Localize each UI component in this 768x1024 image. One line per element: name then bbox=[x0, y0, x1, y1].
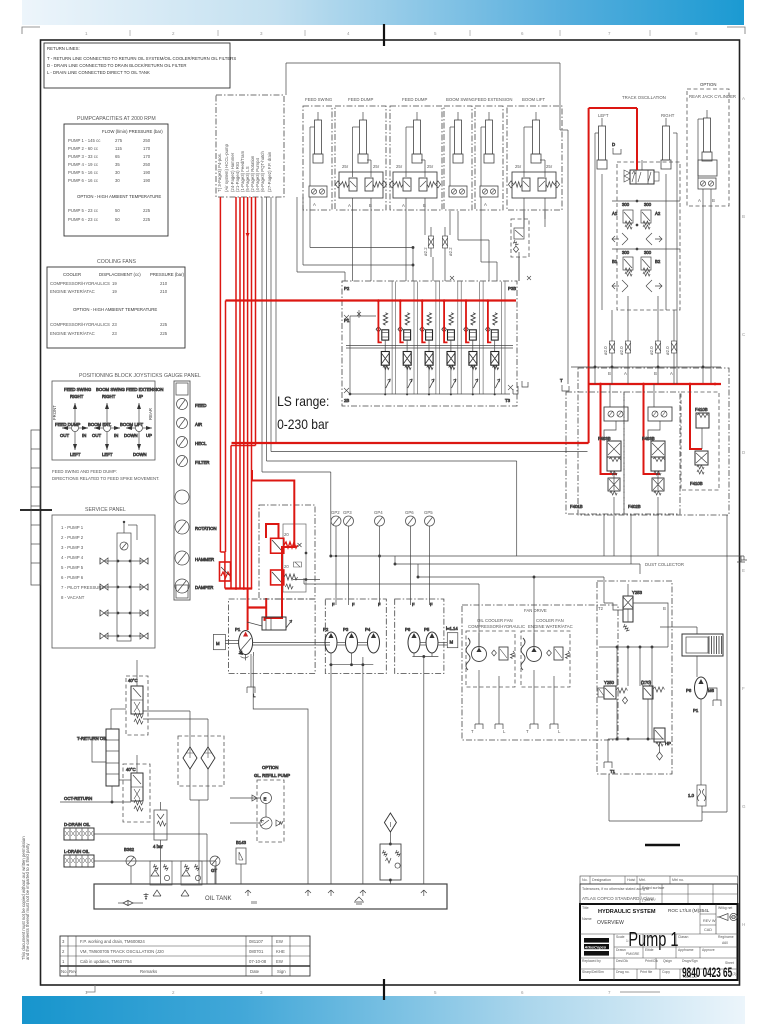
svg-text:T2: T2 bbox=[598, 606, 604, 611]
svg-text:FEED SWING AND FEED DUMP:: FEED SWING AND FEED DUMP: bbox=[52, 469, 117, 474]
svg-text:07-10-08: 07-10-08 bbox=[249, 959, 267, 964]
title block upper table bbox=[580, 876, 738, 884]
svg-text:Drawn: Drawn bbox=[616, 948, 626, 952]
gray bundle from pilot box bbox=[262, 197, 588, 556]
svg-text:RIGHT: RIGHT bbox=[102, 394, 116, 399]
svg-text:A2: A2 bbox=[655, 211, 661, 216]
valve assembly F402B bbox=[624, 384, 680, 514]
svg-text:HYDRAULIC SYSTEM: HYDRAULIC SYSTEM bbox=[598, 909, 656, 915]
gauge FEED bbox=[177, 399, 207, 410]
svg-text:F401B: F401B bbox=[570, 504, 583, 509]
svg-text:F: F bbox=[430, 602, 433, 607]
P1 suction line bbox=[246, 652, 308, 884]
svg-text:300: 300 bbox=[622, 202, 630, 207]
centre fold tick bottom bbox=[383, 979, 385, 1000]
svg-text:B2: B2 bbox=[655, 259, 661, 264]
svg-text:7 - PILOT PRESSURE: 7 - PILOT PRESSURE bbox=[61, 585, 105, 590]
red LS rail to manifold bbox=[226, 301, 517, 553]
svg-text:CAD: CAD bbox=[704, 928, 712, 932]
svg-text:COMPRESSOR/HYDRAULICS: COMPRESSOR/HYDRAULICS bbox=[50, 322, 110, 327]
switch B143 bbox=[236, 840, 247, 884]
orifice 2.2 pair bbox=[423, 227, 453, 257]
svg-text:M: M bbox=[216, 641, 220, 646]
svg-text:G: G bbox=[742, 804, 746, 809]
svg-text:6 - PUMP 6: 6 - PUMP 6 bbox=[61, 575, 84, 580]
svg-text:ROTATION: ROTATION bbox=[195, 526, 217, 531]
red HCCL feed bbox=[225, 470, 294, 630]
svg-text:BOOM SWING: BOOM SWING bbox=[96, 387, 126, 392]
valve group FEED DUMP 1 bbox=[335, 97, 387, 227]
svg-text:Copy: Copy bbox=[662, 970, 670, 974]
svg-text:AtlasCopco: AtlasCopco bbox=[584, 945, 607, 950]
svg-text:65: 65 bbox=[115, 154, 120, 159]
manifold galleries bbox=[344, 286, 516, 403]
svg-text:19: 19 bbox=[112, 281, 117, 286]
cooler fan engine water/atac bbox=[521, 618, 573, 734]
svg-text:A60: A60 bbox=[722, 941, 728, 945]
svg-text:IN: IN bbox=[114, 433, 118, 438]
svg-text:T1: T1 bbox=[610, 769, 616, 774]
svg-text:A: A bbox=[313, 202, 316, 207]
svg-text:P5: P5 bbox=[424, 627, 430, 632]
left binding ladder bbox=[31, 430, 40, 585]
svg-text:(27-Page2) F.P. drain: (27-Page2) F.P. drain bbox=[267, 151, 272, 192]
svg-text:ø2.0: ø2.0 bbox=[649, 346, 654, 355]
track osc left cylinder bbox=[595, 118, 607, 238]
svg-text:PUMP 4 - 19 cc: PUMP 4 - 19 cc bbox=[68, 162, 99, 167]
suction assembly 1 bbox=[150, 861, 172, 885]
svg-text:PUMP 6 - 16 cc: PUMP 6 - 16 cc bbox=[68, 178, 99, 183]
top blue banner bbox=[22, 0, 744, 25]
svg-text:L - DRAIN LINE CONNECTED DIREC: L - DRAIN LINE CONNECTED DIRECT TO OIL T… bbox=[47, 70, 150, 75]
svg-text:OIL TANK: OIL TANK bbox=[205, 896, 232, 902]
svg-text:GP5: GP5 bbox=[424, 510, 433, 515]
svg-text:PUMPCAPACITIES AT 2000 RPM: PUMPCAPACITIES AT 2000 RPM bbox=[77, 116, 156, 122]
svg-text:1:1: 1:1 bbox=[626, 939, 631, 943]
svg-text:PM/GRE: PM/GRE bbox=[626, 952, 640, 956]
positioning block joysticks bbox=[52, 373, 163, 460]
svg-text:Name: Name bbox=[582, 917, 592, 921]
svg-text:2 - PUMP 2: 2 - PUMP 2 bbox=[61, 535, 84, 540]
svg-text:KHE: KHE bbox=[276, 949, 285, 954]
svg-text:25r: 25r bbox=[546, 164, 553, 169]
svg-text:4 - PUMP 4: 4 - PUMP 4 bbox=[61, 555, 84, 560]
cooling fans table bbox=[47, 259, 185, 348]
pump P6 bbox=[405, 602, 420, 653]
svg-text:B: B bbox=[663, 606, 666, 611]
svg-text:P2: P2 bbox=[344, 286, 350, 291]
svg-text:D - DRAIN LINE CONNECTED TO DR: D - DRAIN LINE CONNECTED TO DRAIN BLOCK/… bbox=[47, 63, 187, 68]
svg-text:50: 50 bbox=[115, 208, 120, 213]
svg-text:20: 20 bbox=[284, 532, 289, 537]
red LS line to right block bbox=[232, 108, 638, 443]
svg-text:300: 300 bbox=[622, 250, 630, 255]
oil cooler fan compressor/hydraulic bbox=[466, 618, 525, 734]
title block standards row bbox=[580, 884, 738, 904]
HCCL relief to right bbox=[285, 552, 320, 589]
svg-text:GL. REFILL PUMP: GL. REFILL PUMP bbox=[254, 773, 290, 778]
svg-text:B: B bbox=[608, 371, 611, 376]
svg-text:Y250: Y250 bbox=[604, 680, 615, 685]
centre fold tick left bbox=[20, 509, 52, 511]
svg-text:PRESSURE (bar): PRESSURE (bar) bbox=[150, 272, 184, 277]
svg-text:FAN DRIVE: FAN DRIVE bbox=[524, 608, 547, 613]
top loop line from pilot box to right bbox=[286, 63, 568, 384]
svg-text:ø2.0: ø2.0 bbox=[665, 346, 670, 355]
svg-text:115: 115 bbox=[115, 146, 122, 151]
svg-text:300: 300 bbox=[644, 250, 652, 255]
gauge ROTATION bbox=[175, 520, 217, 534]
svg-text:OPTION - HIGH AMBIENT TEMPERAT: OPTION - HIGH AMBIENT TEMPERATURE bbox=[77, 194, 161, 199]
svg-text:ENGINE WATER/ATAC: ENGINE WATER/ATAC bbox=[50, 289, 95, 294]
oil tank bbox=[94, 884, 447, 909]
B2 compensator bbox=[641, 250, 661, 276]
svg-text:30: 30 bbox=[115, 178, 120, 183]
svg-text:225: 225 bbox=[160, 331, 168, 336]
svg-text:35: 35 bbox=[115, 162, 120, 167]
track osc lines down to rail bbox=[571, 238, 721, 384]
service panel test points bbox=[100, 558, 148, 639]
svg-text:POSITIONING BLOCK JOYSTICKS: POSITIONING BLOCK JOYSTICKS bbox=[79, 373, 163, 379]
svg-text:225: 225 bbox=[143, 208, 151, 213]
D port bbox=[612, 142, 621, 154]
svg-text:Eltide: Eltide bbox=[645, 948, 654, 952]
svg-text:Drwg no.: Drwg no. bbox=[616, 970, 630, 974]
svg-text:OPTION: OPTION bbox=[700, 82, 716, 87]
svg-text:Print/Ctk: Print/Ctk bbox=[645, 959, 658, 963]
interconnect lines valve groups to manifold bbox=[297, 197, 545, 281]
valve Y253 bbox=[604, 581, 668, 647]
T3 drain corner bbox=[513, 381, 528, 394]
svg-text:081107: 081107 bbox=[249, 939, 264, 944]
svg-text:300: 300 bbox=[644, 202, 652, 207]
svg-text:B: B bbox=[742, 214, 745, 219]
svg-text:Y253: Y253 bbox=[632, 590, 643, 595]
HCCL solenoid valve Y1 bbox=[271, 532, 302, 553]
svg-text:A: A bbox=[624, 371, 627, 376]
svg-text:ø2.0: ø2.0 bbox=[603, 346, 608, 355]
pump capacities table bbox=[64, 116, 168, 236]
gauge B362 bbox=[124, 847, 136, 884]
svg-text:FEED DUMP: FEED DUMP bbox=[348, 97, 373, 102]
svg-text:1.0: 1.0 bbox=[688, 793, 695, 798]
joystick feed extension bbox=[120, 387, 164, 457]
svg-text:F: F bbox=[352, 602, 355, 607]
svg-text:Sharp/Del/Sim: Sharp/Del/Sim bbox=[582, 970, 604, 974]
svg-text:LEFT: LEFT bbox=[598, 113, 609, 118]
svg-text:A: A bbox=[348, 203, 351, 208]
L-drain manifold bbox=[64, 849, 216, 884]
svg-text:PUMP 3 - 33 cc: PUMP 3 - 33 cc bbox=[68, 154, 99, 159]
svg-text:DISPLACEMENT (cc): DISPLACEMENT (cc) bbox=[99, 272, 141, 277]
LS manifold stacks bbox=[376, 282, 505, 396]
svg-text:P6: P6 bbox=[405, 627, 411, 632]
svg-text:Sheet: Sheet bbox=[725, 961, 734, 965]
svg-text:190: 190 bbox=[143, 170, 151, 175]
svg-text:UP: UP bbox=[146, 433, 152, 438]
svg-text:Print file: Print file bbox=[640, 970, 652, 974]
pump P5 bbox=[420, 602, 438, 653]
LS manifold box bbox=[342, 281, 517, 406]
return filters bbox=[143, 711, 224, 884]
gauge GP2 bbox=[331, 510, 341, 605]
svg-text:BOOM EXT.: BOOM EXT. bbox=[88, 422, 111, 427]
track osc right cylinder bbox=[661, 118, 677, 238]
svg-text:FEED: FEED bbox=[195, 403, 206, 408]
svg-text:B362: B362 bbox=[124, 847, 135, 852]
svg-text:COMPRESSOR/HYDRAULICS: COMPRESSOR/HYDRAULICS bbox=[50, 281, 110, 286]
gauge GT bbox=[210, 856, 220, 884]
svg-text:F: F bbox=[412, 602, 415, 607]
svg-text:P3: P3 bbox=[343, 627, 349, 632]
svg-text:ø2.0: ø2.0 bbox=[619, 346, 624, 355]
refill pump option bbox=[230, 765, 290, 842]
svg-text:DIRECTIONS RELATED TO FEED SPI: DIRECTIONS RELATED TO FEED SPIKE MOVEMEN… bbox=[52, 476, 159, 481]
svg-text:A: A bbox=[670, 371, 673, 376]
red accumulator bbox=[220, 562, 231, 581]
svg-text:LEFT: LEFT bbox=[102, 452, 113, 457]
svg-text:REAR JACK CYLINDER: REAR JACK CYLINDER bbox=[689, 94, 736, 99]
boom lift holding valve bbox=[511, 211, 529, 281]
svg-text:T: T bbox=[560, 378, 563, 383]
valve group FEED SWING bbox=[303, 97, 333, 210]
svg-text:OUT: OUT bbox=[92, 433, 101, 438]
top margin ticks bbox=[130, 30, 650, 36]
gauge FILTER bbox=[177, 456, 210, 467]
svg-text:Approve: Approve bbox=[702, 948, 715, 952]
svg-text:OPTION - HIGH AMBIENT TEMPERAT: OPTION - HIGH AMBIENT TEMPERATURE bbox=[73, 307, 157, 312]
thermostat valve 2 bbox=[119, 755, 150, 822]
svg-text:COOLING FANS: COOLING FANS bbox=[97, 259, 136, 265]
track osc manifold box bbox=[617, 162, 680, 310]
svg-text:OIL COOLER FAN: OIL COOLER FAN bbox=[477, 618, 513, 623]
corner mark bottom-left bbox=[86, 985, 95, 992]
centre fold tick top bbox=[383, 24, 385, 46]
svg-text:25r: 25r bbox=[427, 164, 434, 169]
svg-text:BOOM LIFT: BOOM LIFT bbox=[120, 422, 144, 427]
pump P6 dust collector bbox=[686, 677, 721, 785]
svg-text:PUMP 1 - 145 cc: PUMP 1 - 145 cc bbox=[68, 138, 101, 143]
svg-text:OPTION: OPTION bbox=[262, 765, 278, 770]
svg-text:T: T bbox=[471, 729, 474, 734]
valve group FEED DUMP 2 bbox=[389, 97, 442, 227]
P1 case drain L bbox=[247, 654, 256, 698]
svg-text:25r: 25r bbox=[515, 164, 522, 169]
OCT-RETURN bbox=[60, 786, 131, 803]
P5 P6 drain collector bbox=[412, 653, 438, 884]
long return manifold lines bbox=[304, 555, 747, 648]
svg-text:(6-Page3) PQT-hatch: (6-Page3) PQT-hatch bbox=[260, 151, 265, 192]
svg-text:A: A bbox=[402, 203, 405, 208]
corner mark top-right bbox=[727, 27, 745, 34]
svg-text:GP3: GP3 bbox=[343, 510, 352, 515]
svg-text:FEED SWING: FEED SWING bbox=[64, 387, 92, 392]
svg-text:ROC L7/L8 (M)354L: ROC L7/L8 (M)354L bbox=[668, 908, 710, 913]
bottom blue banner bbox=[22, 996, 745, 1024]
svg-text:COOLER FAN: COOLER FAN bbox=[536, 618, 564, 623]
motor M left bbox=[213, 634, 239, 649]
svg-text:50: 50 bbox=[115, 217, 120, 222]
svg-text:F: F bbox=[742, 686, 745, 691]
svg-text:Appfname: Appfname bbox=[678, 948, 694, 952]
gauge GP4 bbox=[374, 510, 385, 605]
svg-text:IN: IN bbox=[82, 433, 86, 438]
service panel bbox=[52, 507, 155, 648]
svg-text:LEFT: LEFT bbox=[70, 452, 81, 457]
svg-text:T( 3-Page3) P4-pos.: T( 3-Page3) P4-pos. bbox=[217, 153, 222, 192]
dust collector section bbox=[597, 556, 745, 774]
valve group BOOM SWING bbox=[444, 97, 476, 210]
dc loop to tank bbox=[609, 515, 727, 821]
svg-text:FEED SWING: FEED SWING bbox=[305, 97, 333, 102]
svg-text:Dwgn/Sgn: Dwgn/Sgn bbox=[682, 959, 698, 963]
svg-text:Classn: Classn bbox=[678, 935, 688, 939]
svg-text:190: 190 bbox=[143, 178, 151, 183]
HCCL pilot control block bbox=[259, 505, 315, 599]
svg-text:B143: B143 bbox=[236, 840, 247, 845]
svg-text:HAMMER: HAMMER bbox=[195, 557, 214, 562]
svg-text:DAMPER: DAMPER bbox=[195, 585, 213, 590]
svg-text:ø2.2: ø2.2 bbox=[423, 247, 428, 256]
gauge GP3 bbox=[343, 510, 354, 605]
svg-text:VM, TM600705 TRACK OSCILLATION: VM, TM600705 TRACK OSCILLATION (J20 bbox=[80, 949, 164, 954]
svg-text:40°C: 40°C bbox=[126, 767, 136, 772]
svg-text:Des/Ctk: Des/Ctk bbox=[616, 959, 628, 963]
svg-text:E: E bbox=[742, 568, 745, 573]
HCCL solenoid valve Y2 bbox=[271, 562, 302, 585]
atlas copco logo bbox=[582, 938, 609, 963]
svg-text:EW: EW bbox=[276, 959, 284, 964]
svg-text:HP: HP bbox=[665, 741, 671, 746]
heat exchanger bbox=[660, 627, 723, 677]
svg-text:Tolerances, if no otherwise st: Tolerances, if no otherwise stated acc/g… bbox=[582, 887, 649, 891]
svg-text:HECL: HECL bbox=[195, 441, 207, 446]
svg-text:REV W: REV W bbox=[703, 919, 716, 923]
svg-text:F410B: F410B bbox=[695, 407, 708, 412]
solenoid Y250 bbox=[598, 680, 628, 704]
svg-text:30: 30 bbox=[115, 170, 120, 175]
svg-text:F410B: F410B bbox=[690, 481, 703, 486]
svg-text:Title: Title bbox=[582, 906, 589, 910]
svg-text:T - RETURN LINE CONNECTED TO R: T - RETURN LINE CONNECTED TO RETURN OIL … bbox=[47, 56, 236, 61]
return lines legend box bbox=[44, 43, 236, 88]
svg-text:225: 225 bbox=[143, 217, 151, 222]
svg-text:Scale: Scale bbox=[616, 935, 625, 939]
svg-text:H: H bbox=[742, 922, 745, 927]
red pilot supply bundle bbox=[220, 197, 255, 589]
gauge DAMPER bbox=[175, 579, 213, 593]
B1 compensator bbox=[612, 250, 633, 276]
svg-text:DOWN: DOWN bbox=[124, 433, 138, 438]
pilot signal label box bbox=[216, 95, 284, 197]
svg-text:FLOW (l/min) PRESSURE (bar): FLOW (l/min) PRESSURE (bar) bbox=[102, 129, 163, 134]
svg-text:210: 210 bbox=[160, 281, 168, 286]
svg-text:40°C: 40°C bbox=[128, 678, 138, 683]
svg-text:Cab in updates, TM637754: Cab in updates, TM637754 bbox=[80, 959, 132, 964]
gauge AIR bbox=[177, 418, 203, 429]
filter with bypass to tank bbox=[380, 813, 401, 884]
title block main bbox=[580, 904, 738, 980]
margin numbers bottom bbox=[85, 990, 611, 995]
valve group BOOM LIFT bbox=[507, 97, 562, 227]
svg-text:( )33 K /: ( )33 K / bbox=[642, 898, 656, 902]
svg-text:P4: P4 bbox=[365, 627, 371, 632]
svg-text:5 - PUMP 5: 5 - PUMP 5 bbox=[61, 565, 84, 570]
svg-text:B: B bbox=[654, 371, 657, 376]
svg-text:T: T bbox=[526, 729, 529, 734]
svg-text:Sign: Sign bbox=[277, 969, 286, 974]
rear jack option bbox=[687, 82, 736, 384]
svg-text:275: 275 bbox=[115, 138, 123, 143]
svg-text:Mtrl no.: Mtrl no. bbox=[672, 878, 684, 882]
svg-text:P6: P6 bbox=[686, 688, 692, 693]
revision table bbox=[60, 936, 310, 976]
pump section box P2-P4 bbox=[325, 599, 386, 674]
valve assembly F410B bbox=[681, 392, 719, 490]
svg-text:Wt/kg net: Wt/kg net bbox=[718, 906, 732, 910]
svg-text:0-230 bar: 0-230 bar bbox=[277, 416, 329, 432]
gauge HECL bbox=[177, 437, 208, 448]
service panel connector block bbox=[117, 521, 137, 641]
svg-text:Hoist: Hoist bbox=[627, 878, 635, 882]
gauge blank bbox=[175, 490, 189, 504]
svg-text:PUMP 2 - 60 cc: PUMP 2 - 60 cc bbox=[68, 146, 99, 151]
svg-text:B: B bbox=[712, 198, 715, 203]
svg-text:(Air system) HCCL-pump: (Air system) HCCL-pump bbox=[224, 143, 229, 192]
svg-text:Qsign: Qsign bbox=[663, 959, 672, 963]
svg-text:FRONT: FRONT bbox=[52, 405, 57, 420]
svg-text:080701: 080701 bbox=[249, 949, 264, 954]
svg-text:Date: Date bbox=[250, 969, 260, 974]
gauge HAMMER bbox=[175, 551, 214, 565]
svg-text:9840 0423 65: 9840 0423 65 bbox=[682, 966, 732, 981]
svg-text:LS range:: LS range: bbox=[277, 393, 329, 409]
pump P2 bbox=[323, 602, 337, 653]
svg-text:1 - PUMP 1: 1 - PUMP 1 bbox=[61, 525, 84, 530]
svg-text:BOOM SWING: BOOM SWING bbox=[446, 97, 476, 102]
svg-text:B: B bbox=[423, 203, 426, 208]
B row check diamonds bbox=[612, 248, 680, 292]
svg-text:250: 250 bbox=[143, 138, 151, 143]
svg-text:GP2: GP2 bbox=[331, 510, 340, 515]
svg-text:Replaced by: Replaced by bbox=[582, 959, 601, 963]
svg-text:Fold: Fold bbox=[645, 935, 652, 939]
svg-text:i=1.14: i=1.14 bbox=[446, 626, 458, 631]
svg-text:GP4: GP4 bbox=[374, 510, 383, 515]
restrictor 1.0 bbox=[688, 785, 706, 806]
red pilot rail right side bbox=[589, 383, 721, 474]
svg-text:Rated surface: Rated surface bbox=[642, 886, 664, 890]
svg-text:E: E bbox=[264, 797, 267, 802]
svg-text:SERVICE PANEL: SERVICE PANEL bbox=[85, 507, 126, 513]
svg-text:REAR: REAR bbox=[148, 408, 153, 420]
dust collector gallery bbox=[599, 646, 668, 739]
T-return manifold bbox=[77, 709, 126, 786]
svg-text:ø2.2: ø2.2 bbox=[448, 247, 453, 256]
svg-text:Designation: Designation bbox=[592, 878, 611, 882]
vertical margin note bbox=[21, 836, 30, 960]
svg-text:D-DRAIN OIL: D-DRAIN OIL bbox=[64, 822, 91, 827]
svg-text:210: 210 bbox=[160, 289, 168, 294]
svg-text:FEED DUMP: FEED DUMP bbox=[402, 97, 427, 102]
svg-text:DOWN: DOWN bbox=[133, 452, 147, 457]
title block grid bbox=[580, 934, 738, 980]
svg-text:FEED EXTENSION: FEED EXTENSION bbox=[475, 97, 513, 102]
svg-text:Reg/name: Reg/name bbox=[718, 935, 734, 939]
valve assembly F401B bbox=[566, 384, 628, 514]
svg-text:OUT: OUT bbox=[60, 433, 69, 438]
svg-text:COOLER: COOLER bbox=[63, 272, 81, 277]
